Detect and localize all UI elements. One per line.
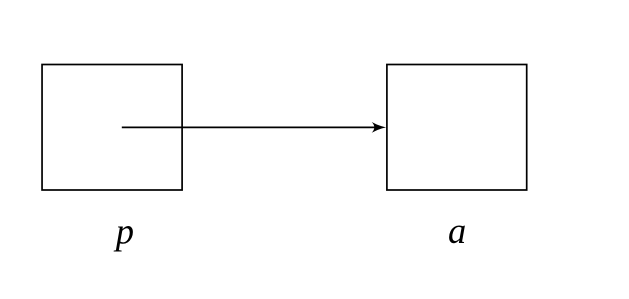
wire arrow shaft p to a (122, 126, 378, 128)
svg-text:p: p (113, 210, 134, 251)
svg-text:a: a (448, 210, 466, 251)
box p (42, 65, 182, 191)
arrowhead at box a (372, 122, 386, 133)
box a (387, 65, 527, 191)
